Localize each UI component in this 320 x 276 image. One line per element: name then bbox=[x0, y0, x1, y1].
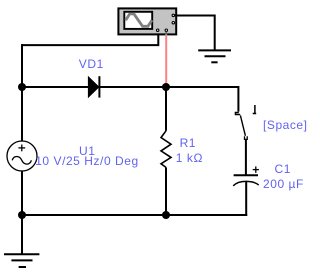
node junction D bottom middle bbox=[162, 211, 170, 219]
svg-text:10 V/25 Hz/0 Deg: 10 V/25 Hz/0 Deg bbox=[35, 154, 139, 168]
wire source to bottom node bbox=[21, 171, 23, 215]
svg-text:1 kΩ: 1 kΩ bbox=[176, 151, 203, 165]
node junction C bottom left bbox=[18, 211, 26, 219]
wire switch to capacitor bbox=[245, 139, 247, 175]
resistor R1 bbox=[161, 131, 171, 168]
wire node to diode anode bbox=[22, 86, 89, 88]
ground top right bbox=[198, 50, 231, 62]
svg-text:[Space]: [Space] bbox=[263, 118, 308, 132]
wire probe red bbox=[165, 32, 167, 35]
oscilloscope XSC1 bbox=[118, 8, 176, 34]
wire resistor top bbox=[165, 87, 167, 131]
capacitor C1 bbox=[233, 166, 259, 185]
svg-text:R1: R1 bbox=[180, 136, 196, 150]
svg-text:C1: C1 bbox=[275, 162, 291, 176]
wire left rail to source bbox=[21, 87, 23, 142]
node junction B middle bbox=[162, 83, 170, 91]
source U1 bbox=[7, 141, 37, 171]
wire resistor bottom bbox=[165, 167, 167, 215]
svg-text:VD1: VD1 bbox=[79, 57, 104, 71]
wire scope terminal to ground bbox=[175, 16, 215, 51]
wire scope channel A to left rail bbox=[22, 33, 158, 45]
wire bottom rail bbox=[21, 214, 247, 216]
switch J1 bbox=[235, 105, 256, 139]
svg-text:200 µF: 200 µF bbox=[263, 177, 304, 191]
wire capacitor bottom riser bbox=[245, 182, 247, 216]
wire left rail top bbox=[21, 44, 23, 87]
wire diode cathode to switch bbox=[99, 87, 238, 112]
diode VD1 bbox=[88, 76, 99, 97]
wire to bottom ground bbox=[21, 215, 23, 254]
ground bottom left bbox=[4, 254, 39, 267]
node junction A left bbox=[18, 83, 26, 91]
